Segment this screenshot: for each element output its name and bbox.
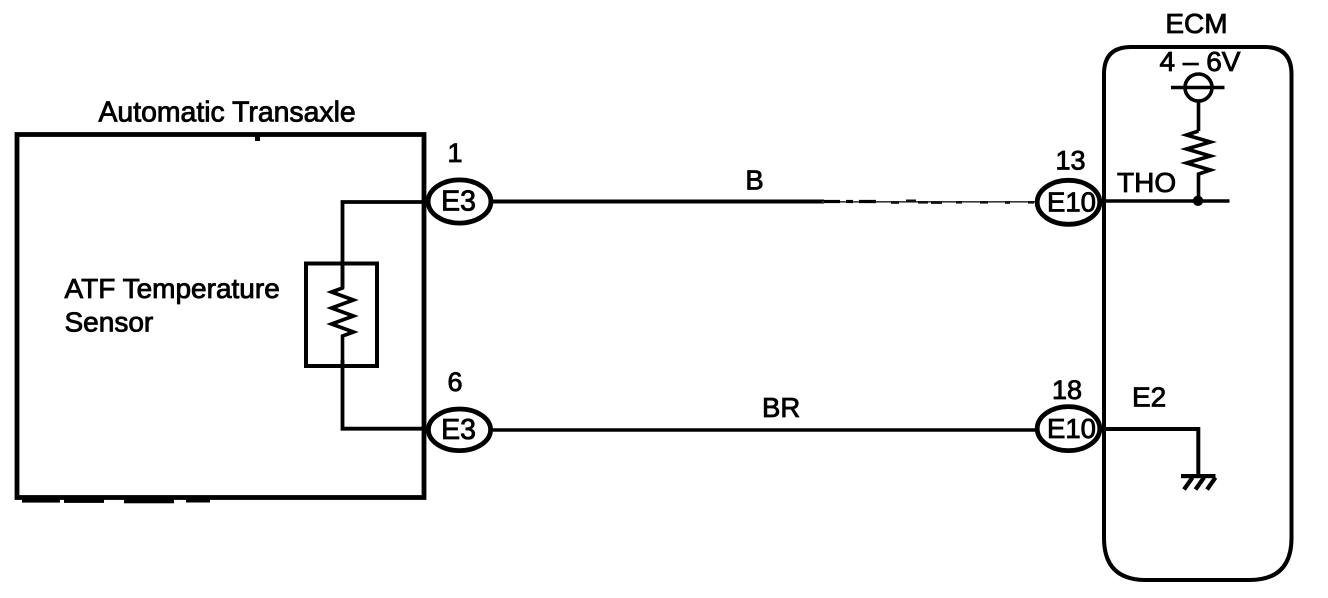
wire B (solid part) [493,200,824,204]
ground symbol [1181,474,1216,490]
svg-text:B: B [745,165,763,196]
node THO (junction dot) [1193,196,1203,206]
svg-text:E2: E2 [1132,382,1166,413]
scan artifact: ragged marks under transaxle box bottom edge [22,136,260,503]
wire BR [493,428,1035,431]
wire B (dark dashes on faded part) [824,200,876,203]
svg-text:E3: E3 [441,186,476,218]
svg-text:E10: E10 [1047,186,1096,217]
svg-text:18: 18 [1052,375,1082,405]
svg-text:E10: E10 [1047,413,1096,444]
connector E3 pin 1 (oval) [428,180,491,223]
svg-text:BR: BR [762,392,800,423]
wire: sensor to pin 6 (vertical + horizontal) [343,360,427,429]
connector E10 pin 18 (oval) [1037,407,1100,451]
enclosure box: ECM (rounded) [1104,47,1292,580]
connector E10 pin 13 (oval) [1037,180,1100,224]
wire: sensor to pin 1 (vertical + horizontal) [343,202,427,288]
resistor (ECM pull-up) [1187,131,1211,198]
sensor component box [306,264,377,367]
svg-text:6: 6 [447,367,462,397]
connector E3 pin 6 (oval) [428,409,490,451]
wire E2 (horizontal + vertical to ground) [1103,429,1198,475]
voltage supply symbol (circle) [1185,74,1212,101]
svg-text:1: 1 [447,138,462,168]
wire THO (horizontal inside ECM) [1105,199,1230,203]
wire B (faded thin part, scan artifact) [822,201,1035,203]
svg-text:13: 13 [1055,146,1085,176]
enclosure box: Automatic Transaxle [17,135,424,498]
svg-text:Automatic Transaxle: Automatic Transaxle [99,97,356,129]
svg-text:4 – 6V: 4 – 6V [1160,46,1241,77]
svg-text:Sensor: Sensor [65,307,154,338]
resistor (ATF temperature sensor thermistor) [332,265,354,366]
svg-text:E3: E3 [441,414,476,446]
svg-text:ECM: ECM [1165,8,1227,39]
svg-text:THO: THO [1117,167,1176,198]
wire: voltage symbol to resistor [1197,101,1201,131]
svg-text:ATF Temperature: ATF Temperature [65,273,280,304]
